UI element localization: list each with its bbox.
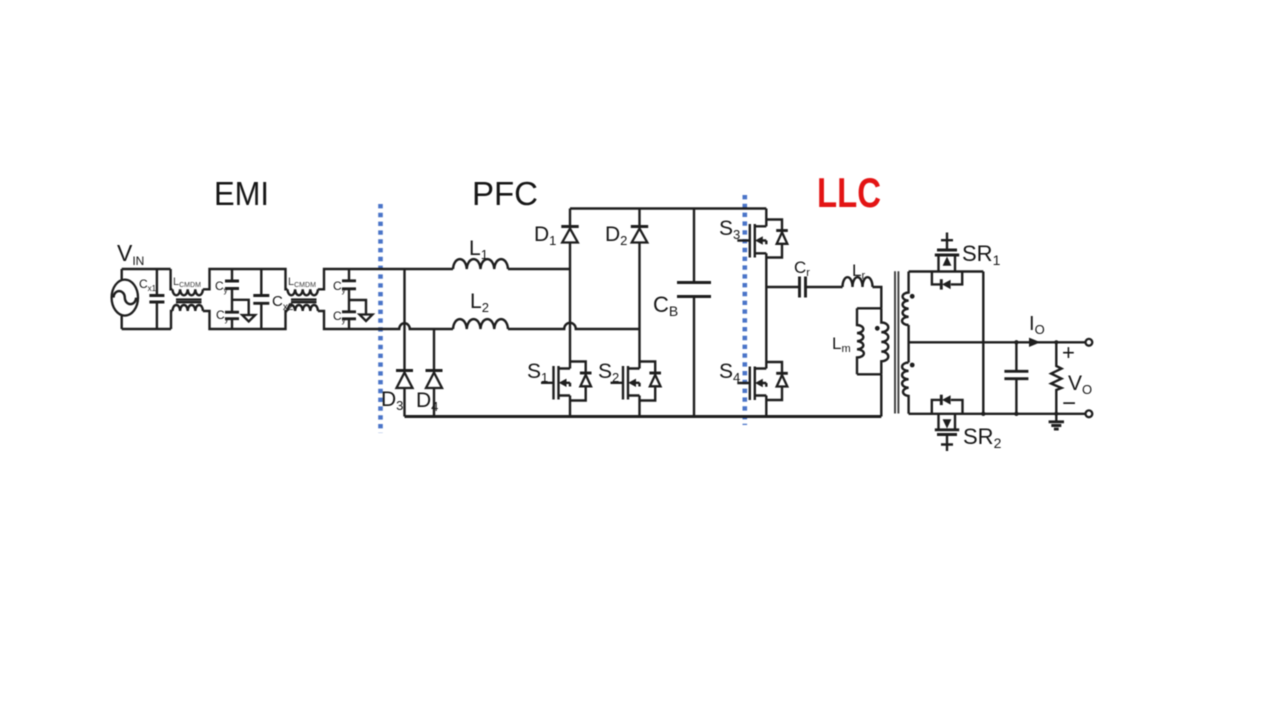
- ground arrow box2: [360, 315, 373, 322]
- boundary dotted line EMI/PFC: [378, 204, 383, 433]
- inductor L2: [453, 319, 508, 329]
- current arrow Io: [1029, 338, 1041, 347]
- sync rectifier SR2: [932, 400, 963, 414]
- wire S2 source: [638, 396, 640, 417]
- boundary dotted line PFC/LLC: [742, 195, 747, 425]
- junction dot load bottom: [1054, 412, 1058, 416]
- polarity dot secondary bottom: [910, 363, 915, 368]
- wire input left: [120, 269, 122, 329]
- svg-text:+: +: [1062, 340, 1075, 365]
- wire secondary top rail: [909, 270, 984, 272]
- junction dot Co top: [1014, 340, 1018, 344]
- capacitor Cy3: [348, 269, 350, 312]
- AC source VIN: [112, 280, 138, 316]
- diode D4: [426, 369, 443, 372]
- transformer primary winding: [881, 308, 888, 374]
- wire input top: [122, 268, 171, 270]
- inductor Lr: [843, 277, 873, 287]
- wire CB bottom: [693, 297, 695, 417]
- polarity dot secondary top: [910, 294, 915, 299]
- wire Lm loop bottom: [857, 373, 881, 375]
- wire box1 bottom rail: [203, 311, 288, 329]
- diode D3: [396, 369, 413, 372]
- bottom rail PFC/LLC: [405, 415, 882, 418]
- capacitor Cy4: [342, 312, 356, 319]
- wire D3 bottom: [403, 388, 405, 417]
- capacitor Cx2: [260, 269, 262, 329]
- capacitor CB: [677, 283, 711, 297]
- wire D2 to S2 drain: [638, 243, 640, 369]
- ground arrow box1: [242, 315, 255, 322]
- terminal negative: [1086, 410, 1093, 417]
- load resistor: [1051, 342, 1061, 414]
- wire output positive rail (center tap): [909, 341, 1086, 343]
- wire D1 to S1 drain: [569, 243, 571, 369]
- transformer secondary top winding: [902, 272, 909, 326]
- wire CB top: [693, 209, 695, 283]
- wire secondary center: [907, 325, 909, 363]
- diode D1: [569, 209, 571, 227]
- wire Lr to primary top: [873, 287, 882, 308]
- wire S3 source to S4 drain (midpoint): [765, 253, 767, 368]
- common-mode choke LCMDM2: [288, 289, 318, 295]
- wire S4 source: [765, 396, 767, 417]
- capacitor Cy2: [225, 312, 239, 319]
- terminal positive: [1086, 339, 1093, 346]
- wire input bottom: [122, 328, 171, 330]
- capacitor Cy1: [231, 269, 233, 312]
- junction dot SR1/rail: [981, 412, 985, 416]
- wire output negative rail: [909, 413, 1086, 415]
- mosfet S4: [766, 362, 782, 400]
- ground tap box2: [349, 300, 366, 315]
- capacitor Co: [1015, 342, 1017, 414]
- ground tap box1: [232, 300, 249, 315]
- wire top rail to D3: [403, 269, 405, 371]
- wire jog into choke1 bottom: [171, 311, 173, 329]
- wire L2 to S2 with hop over D1/S1 line: [508, 323, 640, 329]
- svg-text:LLC: LLC: [817, 169, 881, 216]
- mosfet S2: [640, 362, 656, 401]
- svg-text:EMI: EMI: [214, 175, 269, 212]
- transformer secondary bottom winding: [902, 363, 909, 414]
- wire Cr to Lr: [806, 286, 843, 288]
- wire S1 source: [569, 396, 571, 417]
- top rail PFC: [570, 207, 766, 209]
- capacitor Cr: [800, 277, 806, 298]
- wire primary return: [880, 374, 882, 416]
- inductor Lm: [857, 308, 864, 374]
- wire box2 top rail: [318, 269, 453, 289]
- junction dot load top: [1054, 340, 1058, 344]
- wire SR1 to negative rail: [982, 272, 984, 414]
- wire D4 bottom: [433, 388, 435, 417]
- junction dot Co bottom: [1014, 412, 1018, 416]
- wire L1 to D1: [508, 268, 570, 270]
- wire box2 bottom rail with hop over D3 line: [318, 311, 453, 329]
- wire bottom rail to D4: [433, 329, 435, 371]
- wire jog into choke1 top: [171, 269, 173, 289]
- transformer core: [895, 271, 898, 413]
- wire Lm loop top: [857, 307, 881, 309]
- ground output: [1055, 414, 1057, 422]
- mosfet S1: [570, 362, 586, 401]
- sync rectifier SR1: [939, 255, 956, 272]
- wire midpoint to Cr: [766, 286, 799, 288]
- svg-text:−: −: [1062, 390, 1076, 417]
- polarity dot primary: [875, 326, 880, 331]
- diode D2: [638, 209, 640, 227]
- mosfet S3: [765, 209, 767, 227]
- inductor L1: [453, 259, 508, 269]
- wire box1 top rail: [203, 269, 288, 289]
- capacitor Cx1: [156, 269, 158, 329]
- svg-text:PFC: PFC: [472, 175, 538, 212]
- common-mode choke LCMDM1: [173, 289, 203, 295]
